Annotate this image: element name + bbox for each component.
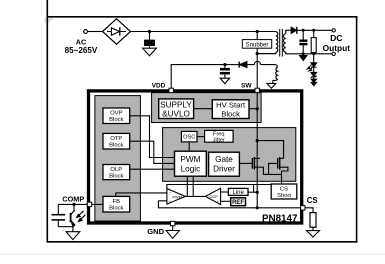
svg-text:CS: CS (307, 196, 318, 205)
svg-text:HV Start: HV Start (216, 101, 246, 110)
svg-text:OSC: OSC (183, 135, 195, 141)
svg-text:SW: SW (241, 82, 252, 89)
svg-text:+: + (169, 199, 172, 204)
svg-text:Driver: Driver (213, 165, 235, 174)
svg-text:Line: Line (233, 190, 245, 196)
svg-text:VDD: VDD (152, 83, 166, 90)
svg-text:PWM: PWM (180, 155, 200, 164)
svg-text:OLP: OLP (110, 167, 122, 173)
svg-text:Snubber: Snubber (246, 42, 269, 48)
svg-text:Block: Block (221, 109, 240, 118)
svg-text:OVP: OVP (110, 110, 123, 116)
svg-text:&UVLO: &UVLO (162, 109, 190, 118)
svg-text:SUPPLY: SUPPLY (160, 100, 192, 109)
svg-text:Block: Block (109, 117, 123, 123)
svg-text:PWM: PWM (173, 195, 182, 199)
svg-text:+: + (217, 199, 220, 204)
svg-text:OCP: OCP (210, 195, 219, 199)
svg-text:OTP: OTP (110, 136, 122, 142)
svg-text:DC: DC (330, 33, 342, 43)
svg-text:Gate: Gate (215, 155, 233, 164)
svg-text:Block: Block (109, 205, 123, 211)
svg-text:Jitter: Jitter (213, 138, 225, 144)
svg-text:Output: Output (323, 43, 351, 53)
svg-text:GND: GND (147, 227, 164, 236)
svg-text:REF: REF (232, 200, 244, 206)
svg-text:Short: Short (277, 193, 291, 199)
svg-text:85~265V: 85~265V (65, 46, 98, 55)
svg-text:CS: CS (280, 186, 288, 192)
svg-text:Logic: Logic (181, 165, 201, 174)
svg-text:COMP: COMP (62, 195, 84, 204)
svg-text:Block: Block (109, 173, 123, 179)
svg-text:FB: FB (113, 199, 121, 205)
svg-text:PN8147: PN8147 (262, 213, 298, 224)
svg-text:Block: Block (109, 142, 123, 148)
